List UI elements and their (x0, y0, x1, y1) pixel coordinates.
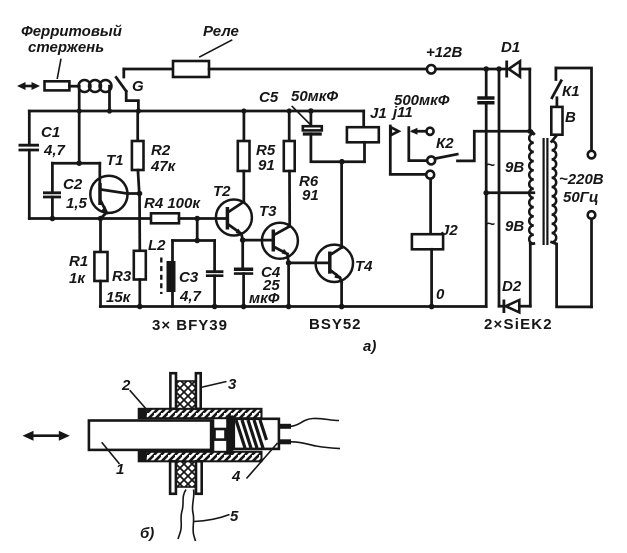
pointer line to relay (199, 40, 232, 57)
wire T2 emitter node to T3 base (243, 239, 272, 242)
primary top lead (552, 135, 557, 142)
junction transformer top tap (527, 129, 532, 134)
switch G lower lead step (126, 91, 138, 111)
switch K1 blade (552, 81, 561, 98)
top rail +12V from switch to relay (124, 68, 173, 71)
svg-text:91: 91 (258, 157, 275, 174)
K2 arrow to the left (410, 128, 427, 135)
svg-text:50мкФ: 50мкФ (291, 88, 338, 105)
fuse В (551, 107, 562, 135)
left branch down to C1 (28, 111, 31, 145)
panel (3) upper part (170, 373, 200, 409)
junction R3 on ground rail (137, 304, 143, 310)
resistor R6 (284, 141, 295, 171)
svg-text:~: ~ (486, 157, 495, 174)
svg-text:К2: К2 (436, 135, 454, 152)
svg-text:стержень: стержень (28, 39, 104, 56)
K2 hanging wire (409, 128, 427, 161)
coil L1 (three loops) (79, 80, 112, 92)
cathode bus wire (line B) (498, 69, 501, 306)
resistor R5 (238, 141, 250, 171)
svg-text:5: 5 (230, 508, 239, 525)
junction R5 on rail2 (241, 108, 246, 113)
junction J2 ground (429, 304, 435, 310)
transistor T1 (90, 163, 127, 218)
junction R6 on rail2 (287, 108, 292, 113)
pointer line 1 (102, 442, 120, 464)
wire T3 emitter node to T4 base (289, 262, 328, 265)
junction T2 emitter node (240, 237, 246, 243)
plunger bar (solid) (226, 415, 233, 454)
wire K1 to fuse (556, 98, 559, 107)
resistor R4 (horizontal) (151, 213, 179, 223)
wire rail2 corner down to J1 (362, 111, 365, 127)
pointer line 3 (201, 382, 227, 388)
resistor R1 (94, 252, 107, 281)
wire C2 bottom to emitter rail (51, 197, 54, 219)
junction J1 loop bottom node (339, 159, 345, 165)
wire C1 bottom down to emitter rail (28, 150, 31, 219)
svg-text:T3: T3 (259, 203, 277, 220)
svg-text:К1: К1 (562, 83, 580, 100)
contact K2 top terminal circle (426, 128, 433, 135)
relay (Реле) coil box (173, 61, 209, 77)
pointer line 5 (194, 515, 230, 522)
secondary bottom lead (530, 242, 534, 245)
junction base node T1 (76, 160, 82, 166)
junction T2 base node (194, 216, 200, 222)
wire coil left end down to rail2 (78, 86, 81, 111)
resistor R2 (132, 141, 144, 170)
svg-text:4,7: 4,7 (43, 142, 66, 159)
svg-text:T4: T4 (355, 258, 373, 275)
svg-text:C1: C1 (41, 124, 60, 141)
centre tap wire (486, 191, 534, 194)
capacitor C3 (206, 272, 224, 276)
wire node down to R3 top (138, 194, 141, 251)
diode D2 (499, 300, 530, 314)
wire K2 bottom down to J2 (429, 179, 432, 235)
pointer line 2 (130, 390, 148, 410)
wire rail2 down to C5 (310, 111, 313, 126)
capacitor C5 plates (303, 126, 322, 134)
junction centre tap on line A (483, 190, 489, 196)
svg-text:G: G (132, 78, 144, 95)
svg-text:T2: T2 (213, 183, 231, 200)
wire T4 emitter to ground rail (340, 281, 343, 307)
mains bottom wire (590, 219, 593, 307)
svg-text:1,5: 1,5 (66, 195, 88, 212)
svg-text:BSY52: BSY52 (309, 316, 362, 333)
svg-text:мкФ: мкФ (249, 290, 280, 307)
pointer line to ferrite rod (57, 59, 61, 79)
wire rail2 to R2 top (136, 111, 139, 141)
svg-text:D2: D2 (502, 278, 522, 295)
svg-text:9В: 9В (505, 159, 524, 176)
wire rail2 to R5 top (243, 111, 246, 141)
svg-text:J1: J1 (370, 105, 387, 122)
panel (3) lower part (170, 461, 202, 494)
pointer line 4 (247, 443, 278, 479)
transistor T2 (216, 200, 252, 241)
capacitor 500мкФ plates (477, 98, 494, 103)
wire R3 bottom to ground rail (138, 280, 141, 307)
svg-text:~: ~ (486, 216, 495, 233)
wire D2 up to transformer bottom (529, 244, 532, 306)
switch G top terminal tick (122, 69, 125, 77)
wire rail down to filter cap (485, 69, 488, 96)
wire C3 bottom to ground rail (213, 276, 216, 307)
svg-text:50Гц: 50Гц (563, 189, 599, 206)
relay coil J1 (347, 127, 379, 142)
wire J1 bottom leg (363, 142, 366, 161)
flex wires (5) (178, 490, 196, 542)
junction T3 emitter node (286, 260, 292, 266)
wire filter cap down to ground rail (line A) (485, 103, 488, 307)
wire base node down to tank (196, 219, 199, 241)
svg-text:Реле: Реле (203, 23, 239, 40)
motion double arrow (drawing б) (23, 431, 70, 441)
svg-text:L2: L2 (148, 237, 166, 254)
transistor T3 (262, 223, 298, 263)
svg-text:а): а) (363, 338, 376, 355)
transformer core lines (544, 138, 548, 245)
svg-text:R1: R1 (69, 253, 88, 270)
junction coil left on rail2 (77, 108, 82, 113)
wire C2 left leg (51, 163, 54, 192)
capacitor C1 (19, 145, 40, 150)
junction C4 ground (241, 304, 247, 310)
wire T3 emitter node down to ground (287, 263, 290, 307)
svg-text:Ферритовый: Ферритовый (21, 23, 122, 40)
L2 core (dashed) (160, 258, 162, 295)
transformer secondary winding (529, 134, 534, 244)
wire R1 bottom to ground rail (99, 281, 102, 307)
contact j11 (arm with open triangle) (390, 126, 426, 174)
wire R2 bottom to node (138, 170, 139, 194)
coil terminal stub lower (279, 439, 291, 444)
ferrite rod (1) (89, 421, 213, 450)
tube (2) upper wall (139, 409, 262, 418)
wire R6 bottom to T3 collector (288, 171, 291, 226)
ferrite rod (45, 81, 70, 90)
wire J2 bottom to ground rail (430, 249, 433, 306)
svg-text:0: 0 (436, 286, 445, 303)
svg-text:T1: T1 (106, 152, 124, 169)
junction tank top (194, 238, 200, 244)
switch G blade (116, 77, 126, 91)
rail2 horizontal (29, 110, 363, 113)
resistor R3 (134, 251, 146, 280)
motion double arrow (antenna) (17, 82, 40, 90)
svg-text:1к: 1к (69, 270, 86, 287)
wire rail2 to R6 top (288, 111, 291, 141)
wire T1 emitter node down to R1 (99, 219, 102, 253)
svg-text:4: 4 (231, 468, 241, 485)
svg-text:47к: 47к (150, 158, 177, 175)
svg-text:15к: 15к (106, 289, 132, 306)
wire R4 to T2 base (179, 217, 226, 220)
tank loop top wire (173, 239, 215, 242)
wire blade tip to transformer tap (458, 131, 532, 161)
junction T4 emitter ground (339, 304, 345, 310)
junction T1 emitter on rail (98, 216, 104, 222)
emitter rail horizontal (29, 217, 151, 220)
K2 switch blade (435, 154, 457, 158)
transistor T4 (316, 245, 353, 282)
junction filter cap on +12V rail (483, 66, 489, 72)
switch K1 fixed terminal (555, 68, 558, 80)
wire C5 bottom leg (311, 134, 365, 162)
svg-text:3: 3 (228, 376, 237, 393)
svg-text:C5: C5 (259, 89, 279, 106)
junction T3 emitter ground (286, 304, 292, 310)
transformer primary winding (552, 141, 557, 242)
wire rail2 down to T1 base node (78, 111, 81, 163)
coil (4) body box (234, 419, 279, 449)
wire coil right end down to rail2 (108, 86, 111, 111)
primary bottom lead (552, 242, 592, 307)
mains terminal lower (588, 211, 596, 219)
svg-text:C2: C2 (63, 176, 83, 193)
svg-text:C3: C3 (179, 269, 199, 286)
svg-text:1: 1 (116, 461, 124, 478)
svg-text:R4 100к: R4 100к (144, 195, 201, 212)
tube (2) lower wall (139, 452, 262, 462)
svg-text:+12В: +12В (426, 44, 462, 61)
K2 middle contact circle (427, 156, 435, 164)
diode D1 (507, 61, 530, 78)
svg-text:2: 2 (121, 377, 131, 394)
wire C4 bottom to ground rail (242, 274, 245, 307)
tank loop left leg (L2 branch) (171, 241, 174, 307)
svg-text:б): б) (140, 525, 154, 542)
top rail relay to D1 (209, 68, 507, 71)
coil terminal stub upper (279, 424, 291, 429)
wire R5 bottom to T2 collector (242, 171, 245, 202)
wire T4 collector up to J1 node (340, 162, 343, 248)
junction C2 on emitter rail (50, 216, 56, 222)
wire rod to coil L1 (69, 85, 79, 88)
svg-text:~220В: ~220В (559, 171, 604, 188)
wire T2 emitter node down to C4 (241, 240, 244, 269)
relay coil J2 (412, 234, 443, 249)
mains top wire (556, 68, 592, 151)
svg-text:3× BFY39: 3× BFY39 (152, 317, 228, 334)
svg-text:2×SiEK2: 2×SiEK2 (484, 316, 553, 333)
svg-text:91: 91 (302, 187, 319, 204)
junction cathode bus on +12V rail (496, 66, 502, 72)
mains terminal upper (588, 151, 596, 159)
pointer line 50мкФ to C5 (292, 106, 312, 126)
coil lead wire upper (291, 418, 339, 426)
K2 bottom contact circle (426, 171, 434, 179)
svg-text:9В: 9В (505, 218, 524, 235)
inductor L2 winding (solid bar) (167, 261, 176, 292)
junction collector node (137, 191, 143, 197)
svg-text:D1: D1 (501, 39, 520, 56)
capacitor C2 (43, 193, 61, 197)
coil (4) winding hatch (236, 420, 267, 448)
svg-text:4,7: 4,7 (179, 288, 202, 305)
svg-text:В: В (565, 109, 576, 126)
junction C3 ground (212, 304, 218, 310)
ground rail horizontal (100, 305, 486, 308)
junction coil right on rail2 (107, 108, 112, 113)
rod end connector piece (215, 429, 226, 440)
coil lead wire lower (291, 442, 340, 449)
capacitor C4 (234, 269, 253, 273)
svg-text:R2: R2 (151, 142, 171, 159)
terminal +12В circle (427, 65, 436, 74)
wire C2 loop top (52, 162, 99, 165)
junction switch G on rail2 (136, 108, 141, 113)
junction C5 on rail2 (308, 108, 314, 114)
svg-text:R3: R3 (112, 268, 132, 285)
wire T1 collector to R2/R3 node (127, 192, 139, 195)
tank loop right leg upper (C3 branch) (213, 241, 216, 272)
svg-text:500мкФ: 500мкФ (394, 92, 450, 109)
wire D1 down to transformer top (528, 69, 531, 131)
secondary top lead (532, 131, 534, 134)
